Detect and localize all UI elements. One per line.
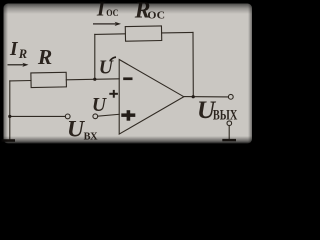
wire feedback left vertical [94, 34, 96, 79]
terminal circle input B [93, 114, 98, 119]
wire output lower terminal to ground [228, 126, 230, 140]
wire feedback top left segment [95, 33, 126, 36]
op-amp plus input symbol [121, 110, 135, 121]
paper panel [4, 4, 253, 144]
svg-text:I: I [9, 39, 19, 60]
op-amp U1 triangle [119, 60, 184, 135]
node dot at output junction [192, 95, 195, 98]
terminal circle output bottom [227, 121, 232, 126]
node dot at bottom left junction [8, 115, 11, 118]
vignette overlays [0, 0, 256, 14]
superscript plus of U plus [109, 90, 118, 98]
ground left bar [1, 139, 15, 142]
svg-text:R: R [37, 45, 52, 69]
wire feedback top right segment [162, 31, 193, 34]
svg-text:U: U [92, 95, 107, 116]
current arrow IR [8, 63, 29, 67]
terminal circle output top [228, 94, 233, 99]
op-amp minus input symbol [123, 77, 132, 80]
ground right bar [222, 139, 236, 141]
wire bottom from node to input jack [10, 115, 66, 117]
node dot at inverting input junction [93, 78, 96, 81]
wire output from apex [184, 96, 229, 98]
wire feedback right vertical [192, 32, 194, 96]
superscript tick of U minus [110, 57, 116, 61]
current arrow Ioc [93, 22, 121, 26]
wire input left segment [10, 80, 31, 82]
wire input right segment to op-amp [66, 79, 119, 80]
svg-text:R: R [18, 47, 27, 61]
resistor Roc box [125, 26, 161, 41]
terminal circle input A [65, 114, 70, 119]
svg-text:U: U [99, 58, 114, 79]
resistor R box [31, 72, 67, 87]
svg-text:ВЫХ: ВЫХ [213, 107, 238, 123]
wire left vertical to ground [9, 81, 11, 140]
wire from jack B to op-amp plus input [98, 114, 120, 116]
